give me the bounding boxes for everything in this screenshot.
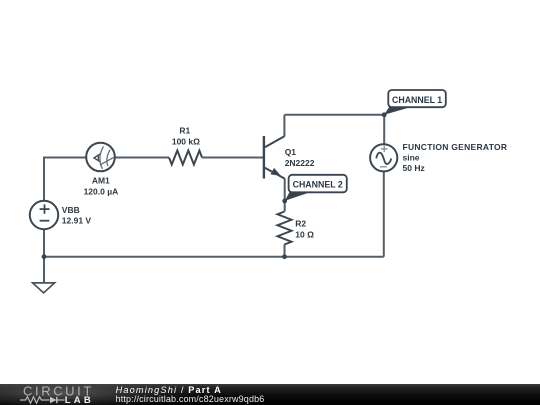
label VBB value (62, 205, 92, 225)
svg-text:2N2222: 2N2222 (285, 158, 315, 168)
wire: ground drop (43, 257, 45, 282)
svg-text:120.0 µA: 120.0 µA (84, 187, 119, 197)
wire: emitter vertical through channel-2 node to R2 top (284, 178, 286, 211)
resistor R1 (169, 151, 202, 165)
wire: ammeter right to R1 left (115, 157, 169, 159)
wire: left vertical from top-left corner to VBB top (43, 158, 45, 202)
wire: top horizontal to function generator node (284, 114, 384, 116)
label Q1 value (285, 147, 315, 168)
wire: function generator bottom to bottom rail (383, 171, 385, 256)
junction node R2 bottom (282, 254, 287, 259)
svg-text:FUNCTION GENERATOR: FUNCTION GENERATOR (403, 142, 508, 152)
svg-text:R1: R1 (179, 126, 190, 136)
voltage source VBB (30, 201, 58, 229)
svg-text:10 Ω: 10 Ω (295, 230, 314, 240)
wire: top-left horizontal to ammeter left (43, 157, 86, 159)
svg-text:CHANNEL 2: CHANNEL 2 (293, 180, 343, 190)
svg-text:Q1: Q1 (285, 147, 297, 157)
wire: function generator top stub (383, 115, 385, 145)
wire: VBB bottom to bottom-left node (43, 229, 45, 257)
svg-text:AM1: AM1 (92, 176, 110, 186)
callout CHANNEL 1 (384, 90, 446, 115)
ammeter AM1 (86, 143, 115, 172)
junction node at channel 2 (282, 199, 287, 204)
label R1 value (172, 126, 200, 147)
footer bar (0, 384, 540, 405)
wire: R1 right to Q1 base (202, 157, 264, 159)
wire: collector riser (283, 115, 285, 137)
logo resistor-diode symbol (20, 397, 65, 403)
svg-text:sine: sine (403, 153, 420, 163)
svg-text:50 Hz: 50 Hz (403, 163, 425, 173)
svg-text:LAB: LAB (65, 395, 94, 405)
wire: R2 bottom to bottom rail (284, 244, 286, 256)
label R2 value (295, 218, 314, 239)
label function generator (403, 142, 508, 173)
junction node at channel 1 (382, 112, 387, 117)
svg-text:100 kΩ: 100 kΩ (172, 137, 200, 147)
ground (33, 283, 55, 293)
svg-text:CHANNEL 1: CHANNEL 1 (392, 95, 442, 105)
resistor R2 (278, 212, 292, 245)
svg-text:12.91 V: 12.91 V (62, 215, 92, 225)
function generator V1 (370, 144, 397, 171)
svg-text:http://circuitlab.com/c82uexrw: http://circuitlab.com/c82uexrw9qdb6 (116, 394, 265, 404)
junction node bottom-left (42, 254, 47, 259)
callout CHANNEL 2 (285, 175, 347, 201)
svg-text:VBB: VBB (62, 205, 80, 215)
wire: bottom rail (44, 256, 384, 258)
label AM1 value (84, 176, 119, 197)
svg-text:R2: R2 (295, 218, 306, 228)
transistor Q1 (264, 136, 285, 179)
